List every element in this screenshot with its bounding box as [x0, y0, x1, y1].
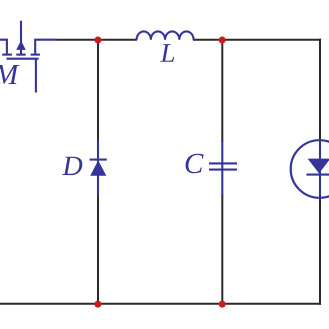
- wire: top rail node A to inductor: [97, 39, 137, 41]
- label C: [186, 154, 204, 174]
- wire: right branch lower segment (LED branch): [319, 197, 321, 305]
- wire: diode branch upper segment: [97, 40, 99, 141]
- wire: bottom rail: [0, 303, 321, 305]
- node A2: junction bottom-left: [94, 301, 101, 308]
- wire: diode branch lower segment: [97, 194, 99, 304]
- node A: junction top-left: [94, 37, 101, 44]
- wire: inductor to node B: [193, 39, 223, 41]
- label L: [160, 44, 174, 62]
- label D: [62, 157, 82, 175]
- LED lamp (circle with diode, cropped at right edge): [291, 140, 329, 198]
- node B: junction top-middle: [219, 37, 226, 44]
- wire: capacitor branch lower segment: [221, 195, 223, 304]
- label M: [0, 65, 19, 84]
- wire: top rail from MOSFET drain lead to node A: [56, 39, 99, 41]
- inductor L: [137, 31, 194, 39]
- transistor M (MOSFET, cropped at left edge): [0, 21, 57, 93]
- node B2: junction bottom-middle: [219, 301, 226, 308]
- diode D: [90, 140, 107, 196]
- wire: top rail node B to top-right corner: [221, 39, 321, 41]
- wire: capacitor branch upper segment: [221, 40, 223, 142]
- wire: right branch upper segment (LED branch): [319, 39, 321, 142]
- capacitor C: [209, 141, 237, 197]
